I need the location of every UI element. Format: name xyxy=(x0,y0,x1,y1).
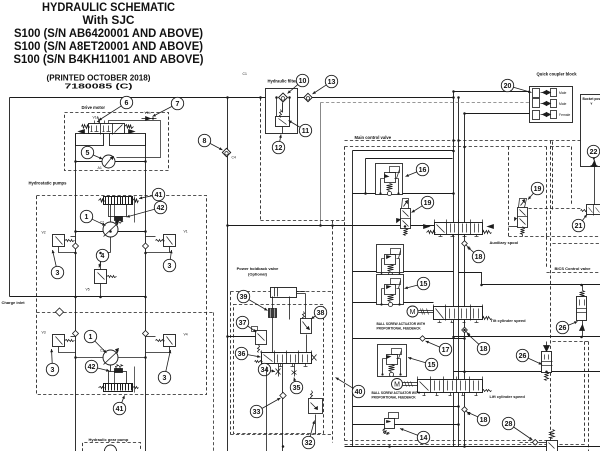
junction node (320,225) xyxy=(319,224,322,227)
relief V1 pipes xyxy=(146,236,156,238)
junction node (464,338) xyxy=(463,337,466,340)
orifice 28 xyxy=(532,440,538,446)
wire pump column right xyxy=(145,134,147,451)
lift spool valve xyxy=(392,377,492,396)
wire coupler male line xyxy=(454,91,530,93)
junction node (453,140) xyxy=(452,139,455,142)
junction node (581,284.5) xyxy=(580,284,583,287)
svg-text:35: 35 xyxy=(293,385,301,392)
tilt spool valve xyxy=(407,305,492,323)
callout 40 xyxy=(336,378,365,398)
junction node (481,284.5) xyxy=(480,284,483,287)
pilot dashed: valve28 line xyxy=(520,442,533,444)
svg-text:V3: V3 xyxy=(42,331,46,335)
callout 42b xyxy=(85,360,109,372)
svg-text:3: 3 xyxy=(56,270,60,277)
callout 1a xyxy=(80,210,105,225)
svg-text:26: 26 xyxy=(559,325,567,332)
wire coupler female line xyxy=(465,113,530,115)
callout 6 xyxy=(99,96,133,120)
pump 1a circle xyxy=(103,221,119,238)
junction node (546,371.3) xyxy=(545,371,548,374)
callout 14 xyxy=(400,428,430,443)
wire charge gallery xyxy=(10,296,146,298)
callout 1b xyxy=(84,330,106,353)
junction v2 xyxy=(74,252,77,255)
svg-text:17: 17 xyxy=(442,347,450,354)
junction node (453,91) xyxy=(452,90,455,93)
servo frame b xyxy=(134,367,136,393)
junction: filter tap xyxy=(259,96,262,99)
pilot tri: drive left xyxy=(79,130,85,134)
svg-text:S100 (S/N B4KH11001 AND ABOVE): S100 (S/N B4KH11001 AND ABOVE) xyxy=(14,52,204,66)
relief valve 16 xyxy=(376,164,403,196)
relief valve 15b xyxy=(377,275,404,307)
wire pump1b row left xyxy=(76,357,103,359)
wire tank bottom xyxy=(345,446,600,448)
bics valve 28 xyxy=(547,430,558,451)
junction node (389,446) xyxy=(388,445,391,448)
orifice 17 xyxy=(420,336,426,342)
holdback cylinder xyxy=(271,288,297,298)
wire lift pilot A xyxy=(353,406,459,408)
filter inner verticals xyxy=(276,98,278,117)
pilot dashed: box19 left xyxy=(508,147,510,237)
callout 5 xyxy=(81,146,102,159)
wire mcv relief header xyxy=(353,193,454,195)
servo link box a xyxy=(109,205,127,217)
check diamond 8 xyxy=(222,148,230,156)
bics valve 26a xyxy=(577,285,587,337)
wire gear pump suction xyxy=(213,313,215,451)
callout 8 xyxy=(198,134,222,150)
svg-text:7180085 (C): 7180085 (C) xyxy=(65,82,134,91)
callout 7 xyxy=(153,97,184,116)
junction node (464,371.3) xyxy=(463,371,466,374)
filter check diamond xyxy=(279,93,288,102)
callout 18b xyxy=(467,334,490,355)
junction node (227,97) xyxy=(226,96,229,99)
wire 39 down xyxy=(272,318,274,353)
wire mcv row tilt xyxy=(353,302,434,304)
svg-text:Hydrostatic pumps: Hydrostatic pumps xyxy=(29,181,68,186)
bucket bottom check xyxy=(592,161,597,167)
callout 19a xyxy=(412,196,434,212)
svg-text:PROPORTIONAL FEEDBACK: PROPORTIONAL FEEDBACK xyxy=(372,396,417,400)
relief V2 pipes xyxy=(71,236,76,238)
wire pump1b row right xyxy=(119,357,146,359)
callout 32 xyxy=(302,421,315,449)
svg-text:42: 42 xyxy=(157,205,165,212)
svg-text:20: 20 xyxy=(504,83,512,90)
svg-text:3: 3 xyxy=(163,375,167,382)
relief V4 arrow xyxy=(167,337,173,345)
svg-text:10: 10 xyxy=(299,78,307,85)
wire pump1a outlet xyxy=(110,237,112,253)
enclosure: drive motor xyxy=(65,113,169,171)
svg-text:S100 (S/N AB6420001 AND ABOVE): S100 (S/N AB6420001 AND ABOVE) xyxy=(14,26,203,40)
servo valve 41b body xyxy=(104,384,133,392)
svg-text:M: M xyxy=(410,309,416,316)
svg-text:11: 11 xyxy=(302,128,310,135)
wire pump column left xyxy=(75,134,77,451)
svg-text:14: 14 xyxy=(420,435,428,442)
pilot dashed: charge inlet xyxy=(37,312,214,314)
check diamond pump col L xyxy=(73,243,79,249)
orifice 18a xyxy=(462,241,471,250)
wire tilt step xyxy=(459,273,482,285)
svg-text:Hydraulic gear pump: Hydraulic gear pump xyxy=(89,437,129,442)
pilot dashed: bics corner xyxy=(584,342,586,445)
junction node (464,146.5) xyxy=(463,146,466,149)
svg-text:26: 26 xyxy=(519,353,527,360)
wire main supply top xyxy=(10,97,454,99)
svg-text:V1: V1 xyxy=(184,230,188,234)
pilot dashed: valve21 feed xyxy=(529,208,582,210)
relief V1 spring xyxy=(156,240,165,242)
svg-text:5: 5 xyxy=(86,150,90,157)
callout 15c xyxy=(408,357,438,371)
enclosure: hydrostatic pumps xyxy=(37,196,207,395)
svg-text:40: 40 xyxy=(355,389,363,396)
relief V3 arrow xyxy=(56,337,63,345)
svg-text:Tilt cylinder speed: Tilt cylinder speed xyxy=(491,318,527,323)
filter body xyxy=(266,89,298,134)
wire riser 1 xyxy=(453,92,455,447)
svg-text:C4: C4 xyxy=(232,156,236,160)
wire lift work line B xyxy=(454,371,600,373)
svg-text:36: 36 xyxy=(238,351,246,358)
spring: drive valve right xyxy=(125,125,134,129)
pilot dashed: bucket link A xyxy=(552,142,554,211)
callout 19b xyxy=(528,182,544,199)
relief V3 pipes xyxy=(71,336,76,338)
junction charge xyxy=(74,296,77,299)
callout 10 xyxy=(288,74,309,93)
coupler block body xyxy=(530,87,573,123)
svg-text:(Optional): (Optional) xyxy=(248,272,268,277)
svg-text:C1: C1 xyxy=(243,72,247,76)
callout 18c xyxy=(467,412,490,426)
svg-text:41: 41 xyxy=(116,406,124,413)
callout 12 xyxy=(272,135,284,154)
enclosure: power holdback inner xyxy=(234,305,324,434)
svg-text:Male: Male xyxy=(559,102,566,106)
pilot wire 19a xyxy=(411,225,435,227)
wire 28 xyxy=(539,442,547,444)
svg-text:12: 12 xyxy=(275,145,283,152)
orifice 18b xyxy=(462,327,471,336)
pilot valve 19b xyxy=(515,199,528,235)
relief V2 arrow xyxy=(56,237,63,245)
callout 34 xyxy=(258,363,275,375)
servo frame a xyxy=(134,197,136,223)
svg-text:Lift cylinder speed: Lift cylinder speed xyxy=(490,394,526,399)
svg-text:34: 34 xyxy=(261,367,269,374)
pilot dashed: bics top xyxy=(547,272,600,274)
relief V2 spring xyxy=(65,240,75,242)
callout 15a xyxy=(405,277,430,289)
charge relief 4 pipes xyxy=(100,253,102,270)
filter drop wire xyxy=(282,103,284,113)
callout 35 xyxy=(290,378,302,394)
svg-text:37: 37 xyxy=(239,320,247,327)
holdback cyl ports xyxy=(272,297,274,309)
pilot tri: drive right xyxy=(129,130,135,134)
pilot dashed: mcv-bucket top1 xyxy=(551,140,591,142)
valve 37 xyxy=(252,327,267,353)
gear pump circle xyxy=(105,445,117,451)
charge relief 4 spring xyxy=(107,276,117,278)
relief V3 spring xyxy=(65,340,75,342)
junction node (458,140) xyxy=(457,139,460,142)
filter inner detail xyxy=(279,119,287,125)
svg-text:HYDRAULIC SCHEMATIC: HYDRAULIC SCHEMATIC xyxy=(42,0,175,14)
svg-text:Hydraulic filter: Hydraulic filter xyxy=(268,79,298,84)
callout 3b xyxy=(163,250,175,272)
wire drain drop 320 xyxy=(320,103,322,226)
callout 37 xyxy=(236,316,256,332)
relief V3 box xyxy=(53,335,65,347)
check diamond pump col L2 xyxy=(73,331,79,337)
pilot wire: drive to motor xyxy=(109,121,161,158)
enclosure: filter return bottom xyxy=(261,220,345,222)
junction node (453,193) xyxy=(452,192,455,195)
svg-text:Main control valve: Main control valve xyxy=(355,135,392,140)
junction p1a xyxy=(74,230,77,233)
sensor 39 xyxy=(269,309,277,318)
junction node (227,336) xyxy=(226,335,229,338)
callout 36 xyxy=(235,347,260,359)
check diamond pump col R xyxy=(143,243,149,249)
relief V4 spring xyxy=(156,340,165,342)
wire: drive motor row xyxy=(76,161,103,163)
valve: drive control body xyxy=(89,124,125,134)
svg-text:19: 19 xyxy=(424,200,432,207)
wire pump1a row left xyxy=(76,231,104,233)
holdback drop wire xyxy=(282,364,284,451)
junction node (282.5,446) xyxy=(282,445,285,448)
svg-text:18: 18 xyxy=(480,417,488,424)
pilot valve 19a xyxy=(397,199,411,236)
valve 38 xyxy=(301,312,312,353)
svg-text:38: 38 xyxy=(317,310,325,317)
wire case drain branch xyxy=(228,225,435,227)
svg-text:13: 13 xyxy=(328,79,336,86)
pilot dashed: bucket link B xyxy=(571,147,573,206)
svg-text:Power holdback valve: Power holdback valve xyxy=(237,266,280,271)
holdback spool 36 xyxy=(255,351,312,367)
callout 42a xyxy=(127,201,167,217)
junction node (227,225) xyxy=(226,224,229,227)
svg-text:39: 39 xyxy=(240,294,248,301)
pilot dashed: box19 bottom xyxy=(509,236,600,238)
junction node (100,252.5) xyxy=(99,252,102,255)
callout 26a xyxy=(556,321,577,333)
svg-text:With SJC: With SJC xyxy=(83,13,135,27)
wire riser 2 xyxy=(458,98,460,447)
callout 22 xyxy=(587,145,599,160)
svg-text:BICS Control valve: BICS Control valve xyxy=(555,266,592,271)
svg-text:M: M xyxy=(394,382,400,389)
svg-text:BALL SCREW ACTUATOR WITH: BALL SCREW ACTUATOR WITH xyxy=(372,391,421,395)
relief valve 15a xyxy=(377,245,404,277)
svg-text:7: 7 xyxy=(176,101,180,108)
svg-text:Male: Male xyxy=(559,91,566,95)
bics valve 26b xyxy=(542,342,553,381)
svg-text:19: 19 xyxy=(534,186,542,193)
pump 1b circle xyxy=(103,349,119,366)
svg-text:Charge inlet: Charge inlet xyxy=(2,300,26,305)
callout 28 xyxy=(502,417,532,440)
svg-text:Bucket positio: Bucket positio xyxy=(583,97,600,101)
pilot dashed: bics cross xyxy=(553,341,589,343)
wire mcv inner left xyxy=(365,159,367,194)
pilot dashed: bics right col xyxy=(588,342,590,451)
solenoid 42b xyxy=(115,369,123,373)
svg-text:15: 15 xyxy=(428,362,436,369)
spool 36 x-mark xyxy=(312,355,317,361)
valve: drive control dividers xyxy=(100,124,102,135)
callout 18a xyxy=(468,247,485,263)
svg-text:8: 8 xyxy=(203,138,207,145)
junction node (365,193) xyxy=(364,192,367,195)
callout 17 xyxy=(426,341,452,356)
junction p1b xyxy=(74,356,77,359)
junction node (581,336.5) xyxy=(580,336,583,339)
bucket valve body xyxy=(581,95,600,167)
callout 20 xyxy=(501,79,531,93)
charge filter diamond xyxy=(56,308,64,316)
orifice 18c xyxy=(462,407,471,416)
charge relief 4 box xyxy=(95,270,107,284)
relief V2 box xyxy=(53,235,65,247)
servo valve 41b marks xyxy=(99,387,105,389)
svg-text:3: 3 xyxy=(51,367,55,374)
svg-text:1: 1 xyxy=(89,334,93,341)
pilot dashed: bics drop xyxy=(546,237,548,269)
wire pump1a row right xyxy=(118,231,146,233)
motor: drive motor circle xyxy=(102,155,115,168)
svg-text:33: 33 xyxy=(253,409,261,416)
pilot dashed: mcv-bucket top2 xyxy=(551,146,572,148)
enclosure: power holdback outer xyxy=(231,291,332,293)
servo valve 41a body xyxy=(104,197,133,205)
svg-text:V4: V4 xyxy=(184,333,188,337)
callout 13 xyxy=(313,75,338,94)
svg-text:28: 28 xyxy=(505,421,513,428)
pilot wire 19b xyxy=(522,235,524,237)
enclosure: main control valve inner xyxy=(345,146,547,148)
valve 32 xyxy=(309,391,323,435)
junction node (453,97) xyxy=(452,96,455,99)
svg-text:BALL SCREW ACTUATOR WITH: BALL SCREW ACTUATOR WITH xyxy=(377,322,426,326)
wire mcv inner top xyxy=(366,158,453,160)
wire tilt work line xyxy=(482,284,600,286)
callout 11 xyxy=(289,121,312,137)
svg-text:15: 15 xyxy=(420,281,428,288)
wire pump1b bottom xyxy=(110,365,112,372)
svg-text:41: 41 xyxy=(155,192,163,199)
relief V4 pipes xyxy=(146,336,156,338)
svg-text:18: 18 xyxy=(480,346,488,353)
wire mcv row aux xyxy=(353,271,454,273)
check diamond 13 xyxy=(304,93,312,101)
svg-text:S100 (S/N A8ET20001 AND ABOVE): S100 (S/N A8ET20001 AND ABOVE) xyxy=(14,39,203,53)
coupler male 2 xyxy=(533,99,557,108)
svg-text:A1: A1 xyxy=(98,166,102,170)
filter inner box xyxy=(276,117,290,127)
svg-text:V2: V2 xyxy=(42,231,46,235)
pilot dashed: coupler pilot xyxy=(321,102,530,104)
junction node (453,150.5) xyxy=(452,150,455,153)
svg-text:Auxiliary spool: Auxiliary spool xyxy=(490,240,519,245)
callout 26b xyxy=(516,349,542,364)
check diamond pump col R2 xyxy=(143,331,149,337)
relief V1 box xyxy=(164,235,176,247)
svg-text:Drive motor: Drive motor xyxy=(82,105,106,110)
valve: drive cell detail R xyxy=(115,125,123,133)
svg-text:V5: V5 xyxy=(86,288,90,292)
svg-text:PROPORTIONAL FEEDBACK: PROPORTIONAL FEEDBACK xyxy=(377,327,422,331)
svg-text:22: 22 xyxy=(590,149,598,156)
valve 34 check xyxy=(278,364,280,377)
servo valve 41a marks xyxy=(99,199,105,203)
junction: drive right xyxy=(144,160,147,163)
relief valve 15c xyxy=(378,345,407,377)
callout 41a xyxy=(139,188,165,200)
svg-text:v: v xyxy=(591,102,593,106)
junction node (332,225) xyxy=(331,224,334,227)
wire mcv row tilt lower xyxy=(353,338,465,340)
servo link box b xyxy=(109,372,127,384)
enclosure: main control valve outer xyxy=(345,140,551,142)
junction node (110,231) xyxy=(109,230,112,233)
spring: drive valve left xyxy=(82,125,90,129)
coupler female xyxy=(533,111,557,120)
relief valve 14 xyxy=(389,413,399,419)
wire mcv gallery top xyxy=(353,150,454,152)
bucket to valve21 wire xyxy=(594,166,596,205)
servo valve 41b hatch xyxy=(105,384,107,391)
junction: drive left xyxy=(74,160,77,163)
svg-text:42: 42 xyxy=(88,364,96,371)
svg-text:1: 1 xyxy=(85,214,89,221)
wire pump1a top xyxy=(110,205,112,222)
junction node (464,329.5) xyxy=(463,329,466,332)
junction node (453,336.5) xyxy=(452,336,455,339)
callout 39 xyxy=(237,290,267,310)
svg-text:21: 21 xyxy=(575,223,583,230)
wire lift pilot B xyxy=(353,424,459,426)
wire left riser xyxy=(9,98,11,297)
servo valve 41a hatch xyxy=(105,197,107,205)
junction node (404.5,226) xyxy=(404,225,407,228)
junction node (464,446) xyxy=(463,445,466,448)
callout 3a xyxy=(51,250,63,279)
relief V4 box xyxy=(164,335,176,347)
svg-text:6: 6 xyxy=(125,100,129,107)
svg-text:16: 16 xyxy=(419,167,427,174)
callout 3d xyxy=(158,350,171,384)
svg-text:3: 3 xyxy=(168,263,172,270)
svg-text:Quick coupler block: Quick coupler block xyxy=(537,72,578,77)
pilot dashed: valve21 line xyxy=(553,243,600,245)
enclosure: filter return left xyxy=(260,98,262,221)
valve 35 check xyxy=(294,364,296,377)
tank box: drive left xyxy=(76,134,104,146)
callout 21 xyxy=(572,215,587,232)
